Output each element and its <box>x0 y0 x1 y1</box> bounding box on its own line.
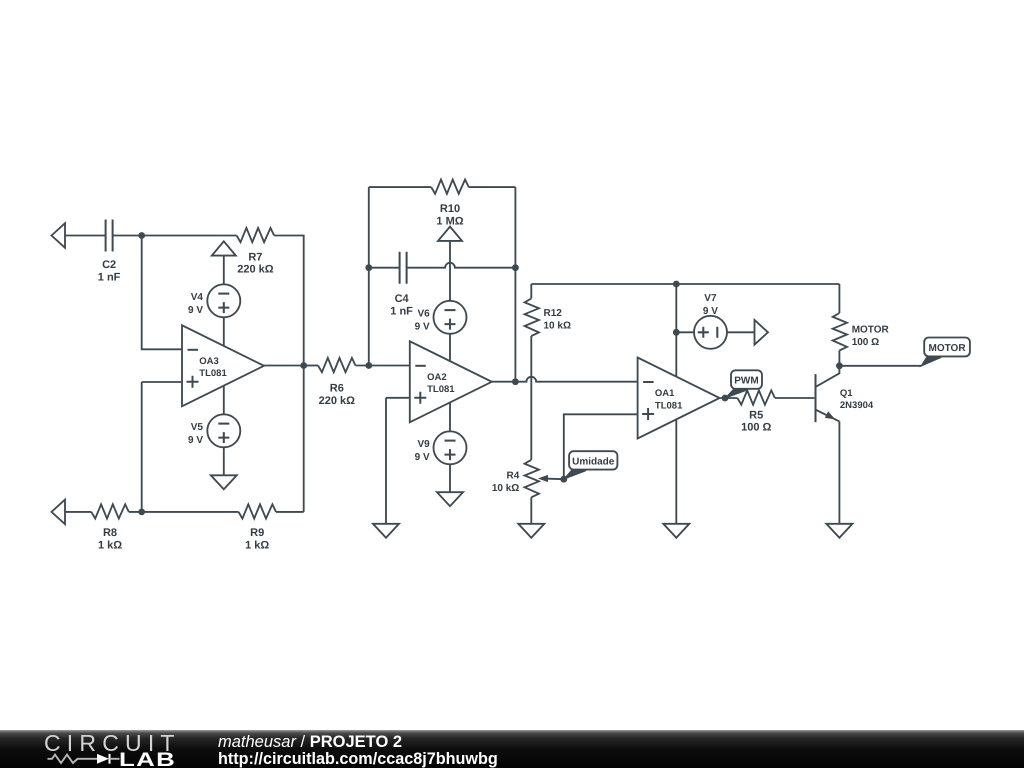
svg-text:C4: C4 <box>395 293 410 305</box>
ground under OA1 <box>663 524 689 538</box>
svg-text:9 V: 9 V <box>415 452 430 463</box>
wire arrow to V4 <box>223 256 225 285</box>
wire feedback top right <box>469 186 516 188</box>
wire to C4 <box>369 267 400 269</box>
junction node collector/MOTOR <box>836 362 843 369</box>
input terminal arrow top-left <box>52 223 66 248</box>
wire OA3 bottom to V5 <box>223 386 225 415</box>
wire supply rail to OA1 top <box>675 284 677 377</box>
op-amp OA2 TL081 <box>410 341 492 422</box>
wire rail to MOTOR resistor <box>838 284 840 313</box>
junction node C2/R7/inverting branch <box>138 232 145 239</box>
svg-text:TL081: TL081 <box>199 368 227 379</box>
svg-text:R5: R5 <box>749 409 763 421</box>
wire V9 to ground <box>449 464 451 492</box>
voltage source V5 <box>207 414 240 447</box>
svg-text:C2: C2 <box>102 259 116 271</box>
svg-text:R7: R7 <box>248 251 262 263</box>
svg-text:V6: V6 <box>417 309 430 320</box>
wire right feedback rail <box>514 187 516 382</box>
junction node V7 tap <box>673 329 680 336</box>
voltage source V7 <box>694 316 727 349</box>
wire OA2 non-inverting input <box>386 397 410 399</box>
ground under R4 <box>518 524 544 538</box>
logo resistor-diode glyph <box>44 752 134 766</box>
junction node PWM <box>722 395 729 402</box>
svg-text:2N3904: 2N3904 <box>840 400 874 411</box>
op-amp OA1 TL081 <box>638 358 720 439</box>
svg-text:PWM: PWM <box>734 376 758 387</box>
flag MOTOR <box>921 338 970 367</box>
wire node to OA3 inverting input <box>142 236 182 350</box>
svg-text:V9: V9 <box>417 439 430 450</box>
svg-text:V7: V7 <box>704 293 717 304</box>
svg-text:100 Ω: 100 Ω <box>741 422 771 434</box>
wire OA3 non-inverting input <box>142 381 182 383</box>
svg-text:OA2: OA2 <box>427 372 447 383</box>
svg-text:9 V: 9 V <box>188 435 203 446</box>
ground under Q1 <box>826 524 852 538</box>
resistor R12 <box>525 299 539 337</box>
wire feedback top left <box>369 186 431 188</box>
wire OA3 output <box>264 365 304 367</box>
wire V4 to OA3 top <box>223 317 225 346</box>
wire R6 to OA2 inverting input <box>356 365 410 367</box>
junction node OA3 output / feedback <box>300 362 307 369</box>
wire arrow to V6 crossing under hop <box>449 241 451 301</box>
wire input to C2 <box>65 235 106 237</box>
wire node to V7 <box>676 331 694 333</box>
wire R4 to ground <box>530 497 532 524</box>
resistor R8 <box>91 504 129 518</box>
junction node R6/OA2 inverting <box>365 362 372 369</box>
svg-text:220 kΩ: 220 kΩ <box>319 395 356 407</box>
svg-text:MOTOR: MOTOR <box>852 325 890 336</box>
wire OA2 bottom to V9 <box>449 402 451 431</box>
svg-text:1 kΩ: 1 kΩ <box>98 539 122 551</box>
potentiometer R4 wiper arrow <box>538 475 564 482</box>
V+ net arrow above V6 <box>438 227 462 241</box>
junction node C4 left <box>365 264 372 271</box>
wire MOTOR resistor to collector node <box>838 351 840 366</box>
voltage source V9 <box>434 431 467 464</box>
resistor R5 <box>737 390 775 404</box>
svg-text:R4: R4 <box>507 471 520 482</box>
junction node OA2 output <box>512 378 519 385</box>
ground under V5 <box>211 475 237 489</box>
wire C4 to right rail with hop over V6 line <box>407 263 516 268</box>
voltage source V4 <box>207 284 240 317</box>
svg-text:1 nF: 1 nF <box>98 271 121 283</box>
svg-text:10 kΩ: 10 kΩ <box>492 483 519 494</box>
wire top supply rail <box>531 283 839 285</box>
wire OA1 output to R5 <box>720 397 737 399</box>
svg-text:Umidade: Umidade <box>572 456 615 467</box>
wire R12 to R4 crossing under hop <box>530 336 532 460</box>
voltage source V6 <box>434 301 467 334</box>
wire V5 to ground <box>223 447 225 475</box>
svg-text:OA1: OA1 <box>655 388 675 399</box>
junction node OA1 supply <box>673 281 680 288</box>
svg-text:1 nF: 1 nF <box>390 305 413 317</box>
wire node to MOTOR flag <box>839 365 921 367</box>
svg-text:100 Ω: 100 Ω <box>852 337 879 348</box>
transistor Q1 2N3904 <box>816 366 840 422</box>
capacitor C4 <box>400 252 407 284</box>
svg-text:10 kΩ: 10 kΩ <box>544 321 571 332</box>
capacitor C2 <box>106 220 113 252</box>
svg-text:OA3: OA3 <box>199 356 219 367</box>
svg-text:V5: V5 <box>191 422 204 433</box>
svg-text:R8: R8 <box>103 527 117 539</box>
wire R5 to Q1 base <box>775 397 814 399</box>
wire R8 to R9 <box>129 511 239 513</box>
CircuitLab logo <box>44 732 181 755</box>
resistor MOTOR <box>833 313 847 351</box>
svg-text:MOTOR: MOTOR <box>929 343 967 354</box>
svg-text:R6: R6 <box>330 383 344 395</box>
resistor R6 <box>318 358 356 372</box>
svg-text:9 V: 9 V <box>703 306 718 317</box>
op-amp OA3 TL081 <box>182 325 264 406</box>
svg-text:R9: R9 <box>250 527 264 539</box>
wire C2 to R7 via node <box>113 235 237 237</box>
svg-text:R10: R10 <box>440 203 460 215</box>
wire rail to R12 <box>530 284 532 299</box>
ground under V9 <box>437 492 463 506</box>
wire OA2 output with hop over R12 line <box>492 377 638 382</box>
wire wiper to OA1 non-inverting input <box>564 414 638 479</box>
svg-text:TL081: TL081 <box>427 384 455 395</box>
wire Q1 emitter to ground <box>838 421 840 523</box>
svg-text:220 kΩ: 220 kΩ <box>237 264 274 276</box>
wire V6 to OA2 top <box>449 334 451 362</box>
flag Umidade <box>564 451 618 479</box>
flag PWM <box>725 370 762 398</box>
svg-text:Q1: Q1 <box>840 388 853 399</box>
resistor R7 <box>237 228 275 242</box>
ground under OA2 non-inverting <box>373 524 399 538</box>
junction node wiper/Umidade <box>560 476 567 483</box>
wire V7 to terminal arrow <box>727 331 754 333</box>
V+ net arrow above V4 <box>212 241 236 255</box>
svg-text:V4: V4 <box>191 292 204 303</box>
junction node C4 right <box>512 264 519 271</box>
svg-text:TL081: TL081 <box>655 400 683 411</box>
wire non-inverting to ground <box>385 398 387 524</box>
svg-text:1 kΩ: 1 kΩ <box>245 539 269 551</box>
svg-text:9 V: 9 V <box>188 305 203 316</box>
wire left feedback rail <box>368 187 370 365</box>
potentiometer R4 <box>525 460 539 498</box>
junction node R8/R9/non-inverting <box>138 509 145 516</box>
input terminal arrow bottom-left <box>52 500 66 525</box>
svg-text:R12: R12 <box>544 308 563 319</box>
resistor R9 <box>239 504 277 518</box>
wire node to R6 <box>304 365 318 367</box>
wire R7 to feedback right rail <box>274 236 304 512</box>
wire R9 to right rail <box>276 511 304 513</box>
svg-text:9 V: 9 V <box>415 322 430 333</box>
resistor R10 <box>431 180 469 194</box>
wire input to R8 <box>65 511 91 513</box>
wire non-inverting to R8/R9 node <box>141 382 143 512</box>
wire OA1 bottom to ground <box>675 419 677 524</box>
terminal arrow right of V7 <box>755 320 769 345</box>
